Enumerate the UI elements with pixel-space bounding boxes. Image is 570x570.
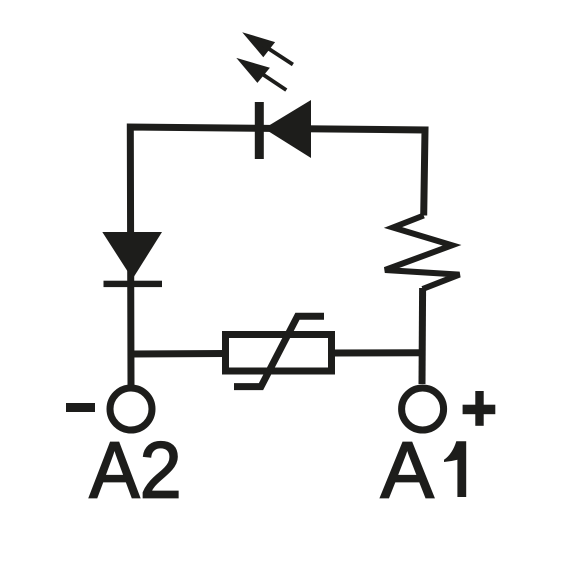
svg-text:A: A [381,425,435,514]
svg-text:A2: A2 [89,425,181,514]
